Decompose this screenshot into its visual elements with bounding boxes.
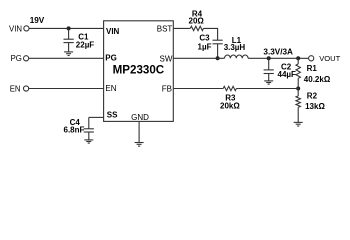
junction node R1 tap	[296, 56, 300, 60]
capacitor C1	[64, 28, 74, 52]
wire IC GND pin down	[138, 121, 140, 142]
svg-text:EN: EN	[10, 84, 21, 93]
junction node C3 to SW wire	[216, 56, 220, 60]
junction node C2 tap	[267, 56, 271, 60]
svg-text:SS: SS	[107, 111, 118, 120]
svg-text:C3: C3	[199, 33, 210, 42]
wire R3 to FB node	[236, 88, 298, 90]
resistor R4	[190, 26, 203, 30]
wire VIN terminal to IC VIN pin	[29, 27, 104, 29]
svg-text:3.3V/3A: 3.3V/3A	[263, 47, 293, 56]
svg-text:SW: SW	[160, 55, 173, 64]
ground below C4	[84, 140, 93, 143]
svg-text:R2: R2	[307, 91, 318, 100]
wire IC SW pin to L1	[173, 57, 224, 59]
junction node FB divider	[296, 87, 300, 91]
svg-text:1µF: 1µF	[198, 43, 212, 52]
svg-text:20Ω: 20Ω	[189, 16, 205, 25]
ground below GND pin	[135, 143, 144, 147]
svg-text:VIN: VIN	[9, 25, 22, 34]
junction node C1 tap	[67, 26, 71, 30]
svg-text:MP2330C: MP2330C	[113, 64, 165, 77]
svg-text:R1: R1	[307, 64, 318, 73]
ground below C1	[64, 52, 73, 56]
svg-text:3.3µH: 3.3µH	[224, 43, 246, 52]
svg-text:40.2kΩ: 40.2kΩ	[304, 75, 331, 84]
terminal EN	[24, 86, 29, 91]
svg-text:44µF: 44µF	[278, 70, 297, 79]
svg-text:13kΩ: 13kΩ	[305, 102, 325, 111]
capacitor C4	[84, 117, 94, 139]
inductor L1	[225, 55, 249, 58]
terminal PG	[24, 56, 29, 61]
svg-text:PG: PG	[105, 54, 117, 63]
resistor R3	[223, 86, 236, 90]
wire IC BST pin to R4	[173, 27, 190, 29]
svg-text:19V: 19V	[30, 16, 45, 25]
svg-text:PG: PG	[11, 54, 22, 63]
wire PG terminal to IC PG pin	[29, 57, 104, 59]
svg-text:6.8nF: 6.8nF	[64, 126, 85, 135]
terminal VIN	[24, 26, 29, 31]
svg-text:BST: BST	[157, 25, 173, 34]
svg-text:20kΩ: 20kΩ	[220, 101, 240, 110]
ground below C2	[264, 81, 273, 84]
wire IC FB pin to R3	[173, 88, 223, 90]
svg-text:FB: FB	[162, 85, 172, 94]
svg-text:EN: EN	[105, 84, 116, 93]
capacitor C2	[264, 58, 274, 81]
terminal VOUT	[309, 56, 314, 61]
wire EN terminal to IC EN pin	[29, 88, 104, 90]
resistor R2	[296, 89, 300, 123]
wire R4 to corner above C3	[204, 28, 218, 40]
wire IC SS pin to C4	[89, 116, 104, 118]
ground below R2	[294, 122, 303, 126]
svg-text:VIN: VIN	[106, 27, 120, 36]
IC U1 MP2330C body	[104, 21, 174, 122]
svg-text:22µF: 22µF	[76, 41, 95, 50]
svg-text:GND: GND	[131, 113, 149, 122]
wire L1 to VOUT terminal	[248, 57, 309, 59]
resistor R1	[296, 58, 300, 88]
capacitor C3	[213, 40, 223, 58]
svg-text:VOUT: VOUT	[319, 54, 340, 63]
